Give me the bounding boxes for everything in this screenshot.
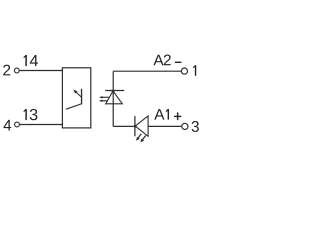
terminal 2 (circle): [14, 68, 19, 73]
label A1+ plus vertical: [177, 112, 179, 120]
label 14: [24, 55, 27, 66]
label 4: [4, 120, 12, 131]
wire corner to LED: [113, 125, 135, 127]
wire terminal4 to box: [20, 124, 63, 126]
label 2: [3, 65, 10, 76]
phototransistor emitter arrowhead: [74, 90, 78, 94]
label A1+ plus horizontal: [174, 115, 181, 117]
opto arrow upper: [101, 96, 109, 98]
diode D1 triangle: [106, 91, 123, 104]
opto arrow lower: [101, 100, 108, 102]
terminal 1 (circle): [181, 68, 187, 74]
terminal 3 (circle): [182, 123, 188, 129]
LED emission arrow left: [137, 134, 141, 139]
output box U1: [62, 68, 90, 128]
node diode D1 apex junction dot: [112, 90, 115, 93]
node LED D2 apex junction dot: [134, 125, 137, 128]
label A2-: [153, 55, 163, 66]
phototransistor emitter line: [74, 90, 81, 97]
wire A2- horizontal: [113, 70, 181, 72]
LED D2 cathode bar: [134, 116, 136, 136]
wire terminal2 to box: [20, 70, 63, 72]
terminal 4 (circle): [15, 122, 20, 127]
LED emission arrow right: [142, 136, 146, 141]
label 13: [24, 109, 27, 120]
label 3: [192, 121, 199, 132]
label 1: [193, 65, 196, 76]
label A1+: [154, 109, 164, 120]
wire LED to terminal 3: [148, 125, 181, 127]
phototransistor collector line: [66, 104, 81, 109]
wire vertical A2 branch: [112, 71, 114, 126]
LED D2 triangle: [135, 116, 148, 136]
phototransistor bar: [81, 89, 83, 105]
label A2- minus dash: [175, 61, 181, 63]
diode D1 cathode bar: [105, 90, 124, 92]
